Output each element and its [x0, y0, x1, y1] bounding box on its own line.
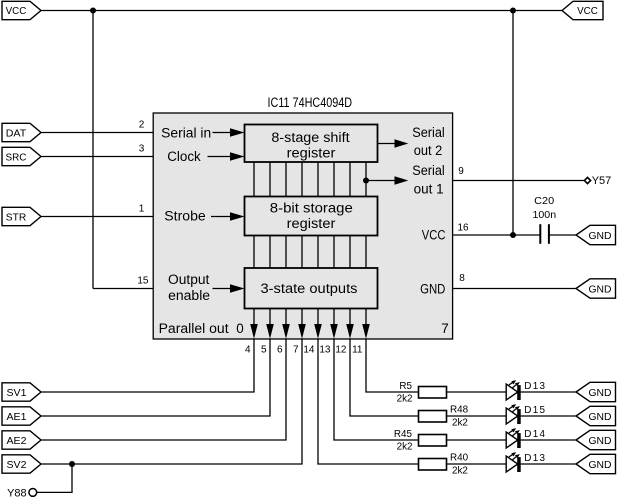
svg-text:D15: D15	[524, 405, 545, 416]
node Y88	[7, 488, 37, 500]
resistor R40	[419, 452, 469, 476]
wire out2 pin6 to AE2	[40, 339, 286, 440]
block 8-stage shift register	[245, 125, 378, 163]
svg-text:VCC: VCC	[577, 6, 598, 17]
svg-text:7: 7	[293, 345, 299, 356]
svg-text:8: 8	[459, 273, 465, 284]
wire VCC vertical right	[512, 11, 514, 236]
junction SV2 Y88	[69, 461, 75, 467]
ground tag GND at C20	[576, 225, 616, 244]
svg-text:R40: R40	[450, 452, 469, 463]
supply tag VCC right	[562, 1, 603, 19]
bus lines shift to storage	[254, 162, 366, 197]
port tag AE2	[2, 431, 41, 449]
led D15	[506, 404, 545, 424]
svg-text:3-state outputs: 3-state outputs	[261, 281, 358, 296]
wire D14 to GND	[521, 439, 576, 441]
wire D15 to GND	[521, 415, 576, 417]
svg-text:Strobe: Strobe	[164, 208, 205, 223]
bus lines storage to 3-state	[254, 236, 366, 269]
arrow strobe	[211, 212, 245, 220]
label Serial out 1	[412, 163, 445, 196]
svg-text:SV1: SV1	[7, 388, 27, 399]
resistor R45	[394, 429, 447, 453]
junction top-right VCC	[510, 8, 516, 14]
wire D13 to GND	[521, 391, 576, 393]
wire C20 to GND	[549, 234, 576, 236]
svg-text:C20: C20	[534, 196, 555, 207]
svg-text:GND: GND	[589, 460, 612, 471]
junction VCC pin16	[510, 232, 516, 238]
label Output enable	[168, 272, 210, 303]
svg-text:Serial: Serial	[412, 125, 445, 140]
svg-text:R48: R48	[450, 404, 469, 415]
port tag DAT	[2, 123, 41, 141]
svg-text:DAT: DAT	[6, 128, 27, 139]
svg-text:GND: GND	[589, 231, 612, 242]
svg-text:2: 2	[139, 119, 145, 130]
arrow clock	[208, 152, 245, 160]
arrow serial out 1	[366, 176, 408, 184]
arrow serial in	[213, 128, 245, 136]
svg-text:100n: 100n	[533, 210, 557, 221]
port tag STR	[2, 207, 41, 225]
wire pin 9 to Y57	[453, 180, 584, 182]
svg-text:11: 11	[352, 345, 363, 356]
svg-text:register: register	[287, 216, 336, 231]
wire out6 pin12 to R48	[350, 339, 419, 416]
svg-text:8-bit storage: 8-bit storage	[270, 201, 353, 216]
svg-text:8-stage shift: 8-stage shift	[271, 130, 349, 145]
ground tag GND row3	[576, 430, 616, 449]
wire pin 15 to IC	[93, 288, 153, 290]
svg-text:5: 5	[261, 345, 267, 356]
supply tag VCC left	[2, 1, 41, 19]
svg-text:2k2: 2k2	[452, 417, 468, 428]
svg-text:16: 16	[457, 222, 469, 233]
resistor R5	[397, 381, 447, 405]
svg-text:12: 12	[335, 345, 347, 356]
port tag SRC	[2, 147, 41, 165]
svg-text:Serial in: Serial in	[161, 125, 211, 140]
svg-text:2k2: 2k2	[452, 465, 468, 476]
wire R5 to D13	[447, 391, 507, 393]
svg-text:out 1: out 1	[414, 181, 444, 196]
svg-text:GND: GND	[589, 388, 612, 399]
svg-text:AE2: AE2	[7, 436, 27, 447]
block 3-state outputs	[245, 268, 378, 309]
svg-text:D13: D13	[524, 453, 545, 464]
ground tag GND pin8	[576, 279, 616, 298]
label Serial out 2	[412, 125, 445, 158]
svg-text:Serial: Serial	[412, 163, 445, 178]
svg-text:out 2: out 2	[414, 143, 443, 158]
wire VCC top rail	[40, 10, 562, 12]
wire pin 8 to GND	[453, 288, 576, 290]
arrow serial out 2	[378, 139, 409, 147]
port tag AE1	[2, 407, 41, 425]
svg-text:2k2: 2k2	[397, 394, 413, 405]
port tag SV1	[2, 383, 41, 401]
svg-text:IC11 74HC4094D: IC11 74HC4094D	[268, 95, 353, 110]
svg-text:4: 4	[245, 345, 251, 356]
svg-text:SV2: SV2	[7, 460, 27, 471]
port tag SV2	[2, 455, 41, 473]
svg-text:GND: GND	[420, 281, 446, 296]
junction top-left VCC	[90, 8, 96, 14]
svg-text:14: 14	[303, 345, 315, 356]
wire out1 pin5 to AE1	[40, 339, 270, 416]
svg-text:GND: GND	[589, 412, 612, 423]
svg-text:STR: STR	[6, 212, 27, 223]
node Y57	[584, 175, 611, 187]
svg-text:0: 0	[236, 321, 243, 336]
svg-text:VCC: VCC	[6, 6, 27, 17]
ground tag GND row2	[576, 406, 616, 425]
wire D13b to GND	[521, 463, 576, 465]
wire out0 pin4 to SV1	[40, 339, 254, 392]
svg-text:1: 1	[139, 203, 145, 214]
svg-text:15: 15	[137, 275, 149, 286]
led D14	[506, 428, 545, 448]
svg-text:Y57: Y57	[592, 175, 612, 187]
svg-text:R5: R5	[399, 381, 412, 392]
wire Y88 to SV2 net	[37, 464, 72, 492]
wire R45 to D14	[447, 439, 507, 441]
svg-text:D13: D13	[524, 381, 545, 392]
svg-text:SRC: SRC	[6, 152, 27, 163]
svg-text:AE1: AE1	[7, 412, 27, 423]
capacitor C20 100n	[533, 196, 557, 244]
op IC11 74HC4094D body	[153, 113, 452, 339]
wire VCC vertical left	[92, 11, 94, 289]
svg-text:Clock: Clock	[167, 149, 201, 164]
svg-text:enable: enable	[168, 288, 210, 303]
svg-text:register: register	[287, 145, 336, 160]
label Parallel out 0 7	[159, 321, 449, 336]
wire R40 to D13b	[447, 463, 507, 465]
svg-text:3: 3	[139, 143, 145, 154]
wire R48 to D15	[447, 415, 507, 417]
wire pin 16 to C20	[453, 234, 540, 236]
wire out4 pin14 to R40	[318, 339, 419, 464]
svg-text:Y88: Y88	[7, 488, 27, 500]
svg-text:13: 13	[319, 345, 331, 356]
wire out3 pin7 to SV2	[40, 339, 302, 464]
arrow output enable	[213, 284, 245, 292]
svg-text:VCC: VCC	[422, 227, 446, 242]
svg-text:2k2: 2k2	[397, 442, 413, 453]
led D13	[506, 380, 545, 400]
wire out5 pin13 to R45	[334, 339, 419, 440]
wire out7 pin11 to R5	[366, 339, 419, 392]
resistor R48	[419, 404, 469, 428]
block 8-bit storage register	[245, 197, 378, 236]
svg-text:R45: R45	[394, 429, 413, 440]
ground tag GND row1	[576, 382, 616, 401]
led D13 second	[506, 452, 545, 472]
wire DAT to pin 2	[40, 132, 153, 134]
svg-text:Output: Output	[168, 272, 210, 287]
svg-text:7: 7	[441, 321, 448, 336]
svg-text:GND: GND	[589, 284, 612, 295]
svg-text:GND: GND	[589, 436, 612, 447]
svg-text:6: 6	[277, 345, 283, 356]
svg-text:Parallel out: Parallel out	[159, 321, 229, 336]
wire STR to pin 1	[40, 216, 153, 218]
wire SRC to pin 3	[40, 156, 153, 158]
output down arrows	[250, 309, 370, 339]
svg-text:9: 9	[458, 166, 464, 177]
svg-text:D14: D14	[524, 429, 545, 440]
ground tag GND row4	[576, 454, 616, 473]
junction serial out 1 tap	[363, 178, 369, 184]
